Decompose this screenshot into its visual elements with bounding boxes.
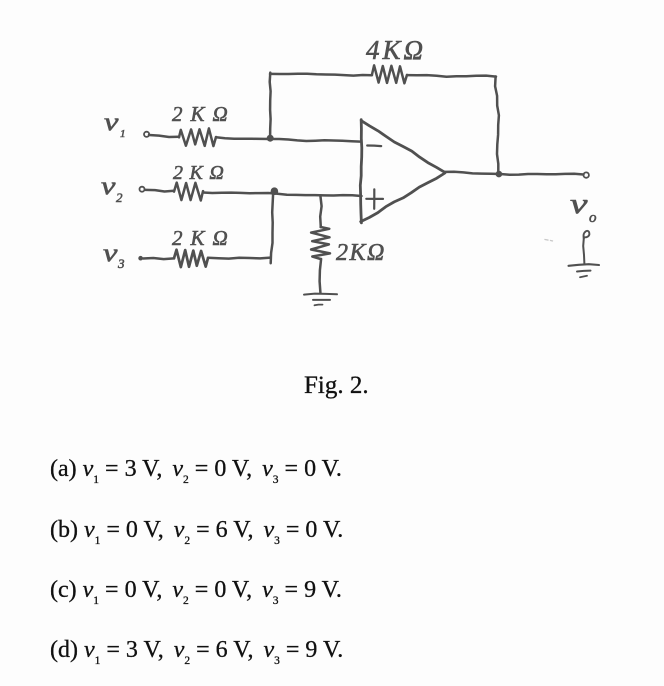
svg-text:1: 1 [120, 128, 126, 140]
ground symbol bar 1 (left ground) [304, 294, 337, 295]
label 2KΩ v1 branch [172, 102, 236, 126]
node v3 input terminal (dot) [138, 256, 143, 261]
wire ground resistor to ground [320, 259, 322, 293]
resistor 2KΩ v1 branch [179, 128, 216, 146]
ground symbol bar 2 (right ground) [577, 270, 591, 273]
svg-text:3: 3 [117, 256, 125, 271]
wire v3 resistor to riser [208, 258, 271, 259]
svg-text:2KΩ: 2KΩ [336, 240, 386, 266]
label 2KΩ v2 branch [173, 162, 230, 184]
svg-text:2KΩ: 2KΩ [172, 226, 236, 250]
resistor 2KΩ to ground [311, 227, 330, 259]
svg-text:2: 2 [116, 190, 123, 205]
ground symbol hook (right ground) [584, 231, 590, 239]
op-amp U1 bottom edge [361, 173, 445, 222]
wire v3 riser up to v2 node [271, 192, 274, 263]
wire feedback right vertical to output node [495, 77, 499, 174]
ground symbol bar 3 (left ground) [315, 304, 323, 307]
label v2 [101, 172, 123, 205]
resistor 2KΩ v2 branch [174, 183, 203, 201]
wire feedback top-right segment [407, 75, 496, 77]
caption Fig. 2. [304, 372, 369, 400]
text line (a) [50, 456, 342, 483]
label v1 [104, 108, 126, 140]
svg-text:o: o [589, 210, 597, 226]
wire v3 terminal to resistor [143, 258, 174, 259]
svg-text:v: v [103, 239, 118, 267]
op-amp inverting input - sign [367, 144, 381, 147]
smudge mark [545, 240, 553, 241]
op-amp U1 top edge [361, 121, 445, 173]
wire v1 resistor to op-amp inverting input [216, 137, 361, 141]
wire + input node to ground resistor [320, 196, 321, 227]
svg-text:2KΩ: 2KΩ [173, 162, 230, 184]
wire v2 resistor to op-amp non-inverting input [203, 193, 362, 197]
ground symbol bar 1 (right ground) [569, 264, 600, 266]
node v1 input terminal (open circle) [144, 132, 149, 137]
label 2KΩ ground branch [336, 240, 386, 266]
node v2 input terminal (open circle) [140, 187, 145, 192]
op-amp non-inverting input + sign vertical [373, 189, 375, 209]
wire v2 terminal to resistor [146, 190, 175, 192]
node junction v1/feedback (dot) [267, 135, 274, 142]
wire feedback top-left segment [270, 74, 372, 76]
svg-text:2KΩ: 2KΩ [172, 102, 236, 126]
label vo [570, 189, 597, 226]
op-amp U1 left edge [360, 120, 362, 223]
resistor 4KΩ feedback [372, 65, 407, 83]
label v3 [103, 239, 125, 271]
svg-text:v: v [570, 189, 588, 219]
ground symbol bar 2 (left ground) [313, 299, 330, 301]
resistor 2KΩ v3 branch [174, 250, 208, 267]
wire v1 terminal to resistor [149, 135, 179, 137]
label 4KΩ [366, 35, 426, 65]
svg-text:4KΩ: 4KΩ [366, 35, 426, 65]
node output/feedback junction (dot) [496, 171, 503, 178]
text line (c) [50, 577, 342, 604]
wire op-amp output to vo terminal [445, 172, 584, 175]
wire feedback left vertical to v1 node [268, 73, 271, 138]
node junction v2/v3 (dot) [271, 187, 279, 195]
node vo output terminal (open circle) [584, 172, 589, 177]
text line (d) [50, 637, 343, 664]
text line (b) [50, 517, 343, 544]
op-amp non-inverting input + sign horizontal [366, 198, 383, 200]
svg-text:v: v [104, 108, 119, 136]
label 2KΩ v3 branch [172, 226, 236, 250]
ground symbol stem (right ground) [583, 237, 584, 264]
ground symbol bar 3 (right ground) [580, 276, 587, 277]
svg-text:v: v [101, 172, 116, 200]
